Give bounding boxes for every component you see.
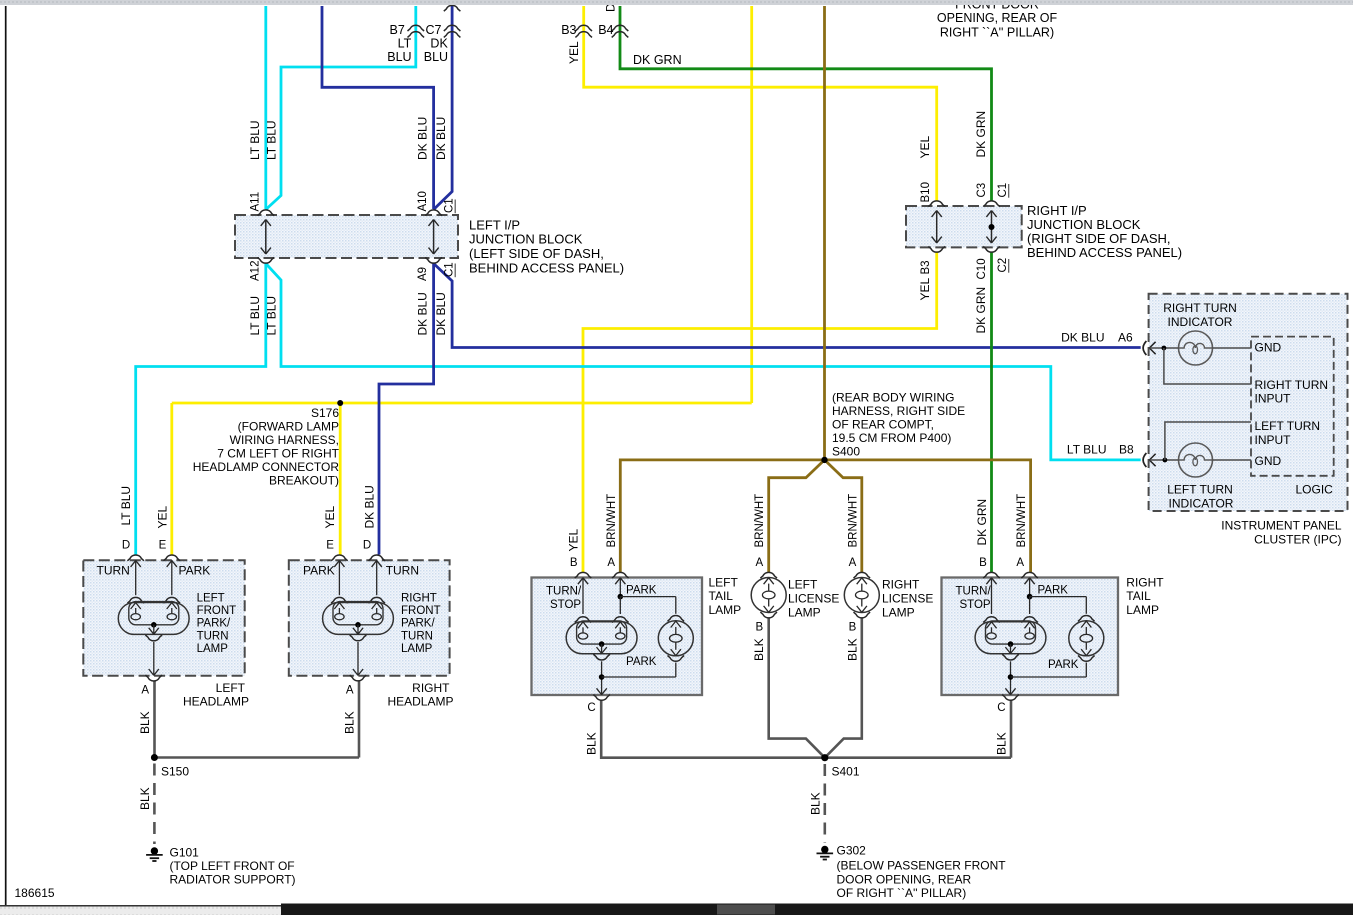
svg-text:B: B (979, 557, 987, 569)
svg-text:TURN: TURN (97, 564, 130, 578)
svg-text:B: B (849, 622, 857, 634)
svg-text:A10: A10 (417, 191, 429, 211)
svg-text:INPUT: INPUT (1255, 433, 1292, 447)
svg-text:BLK: BLK (808, 792, 822, 815)
svg-text:B3: B3 (920, 260, 932, 274)
svg-text:CLUSTER (IPC): CLUSTER (IPC) (1254, 532, 1341, 546)
svg-text:LT BLU: LT BLU (119, 486, 133, 526)
svg-text:B7: B7 (390, 23, 405, 37)
svg-text:BRN/WHT: BRN/WHT (1016, 494, 1028, 548)
svg-text:DOOR OPENING, REAR: DOOR OPENING, REAR (837, 872, 972, 886)
svg-text:YEL: YEL (323, 505, 337, 528)
svg-text:C1: C1 (997, 183, 1009, 198)
svg-text:YEL: YEL (155, 505, 169, 528)
svg-text:186615: 186615 (15, 886, 55, 900)
svg-text:D: D (363, 540, 371, 552)
svg-text:(TOP LEFT FRONT OF: (TOP LEFT FRONT OF (170, 859, 295, 873)
svg-text:PARK: PARK (303, 564, 335, 578)
svg-text:BLK: BLK (752, 638, 766, 661)
svg-text:B3: B3 (561, 23, 576, 37)
svg-text:E: E (326, 540, 334, 552)
svg-text:S176: S176 (311, 406, 339, 420)
svg-text:LAMP: LAMP (401, 643, 433, 655)
svg-text:C2: C2 (997, 258, 1009, 273)
svg-text:INSTRUMENT PANEL: INSTRUMENT PANEL (1221, 519, 1342, 533)
svg-text:OF RIGHT ``A'' PILLAR): OF RIGHT ``A'' PILLAR) (837, 886, 967, 900)
svg-text:BLK: BLK (845, 638, 859, 661)
svg-text:PARK/: PARK/ (401, 618, 435, 630)
svg-text:A11: A11 (249, 192, 261, 212)
svg-text:DK: DK (430, 37, 448, 51)
svg-text:HARNESS, RIGHT SIDE: HARNESS, RIGHT SIDE (832, 404, 965, 418)
svg-text:TURN: TURN (386, 564, 419, 578)
svg-text:BLK: BLK (995, 732, 1009, 755)
svg-text:A: A (1016, 557, 1024, 569)
svg-text:LAMP: LAMP (709, 603, 742, 617)
svg-text:S400: S400 (832, 445, 860, 459)
svg-text:LEFT TURN: LEFT TURN (1255, 419, 1321, 433)
svg-text:DK GRN: DK GRN (633, 53, 682, 67)
svg-text:BEHIND ACCESS PANEL): BEHIND ACCESS PANEL) (469, 260, 624, 275)
svg-text:RIGHT: RIGHT (1126, 576, 1164, 590)
svg-text:D: D (122, 540, 130, 552)
svg-text:C1: C1 (444, 198, 456, 213)
svg-text:B10: B10 (920, 182, 932, 202)
svg-text:RIGHT: RIGHT (882, 578, 920, 592)
svg-text:DK BLU: DK BLU (434, 117, 448, 160)
svg-text:PARK: PARK (179, 564, 211, 578)
svg-text:OF REAR COMPT,: OF REAR COMPT, (832, 418, 934, 432)
svg-text:GND: GND (1255, 341, 1282, 355)
svg-text:BRN/WHT: BRN/WHT (847, 494, 859, 548)
svg-text:LEFT TURN: LEFT TURN (1167, 483, 1233, 497)
svg-text:BRN/WHT: BRN/WHT (754, 494, 766, 548)
svg-text:DK GRN: DK GRN (974, 287, 988, 334)
svg-text:BLK: BLK (138, 787, 152, 810)
svg-text:LAMP: LAMP (882, 606, 915, 620)
svg-text:HEADLAMP: HEADLAMP (387, 695, 453, 709)
svg-text:WIRING HARNESS,: WIRING HARNESS, (230, 433, 339, 447)
svg-text:(RIGHT SIDE OF DASH,: (RIGHT SIDE OF DASH, (1027, 231, 1171, 246)
svg-text:LAMP: LAMP (197, 643, 229, 655)
svg-text:JUNCTION BLOCK: JUNCTION BLOCK (1027, 217, 1141, 232)
svg-text:C3: C3 (976, 183, 988, 198)
svg-text:DK BLU: DK BLU (434, 292, 448, 335)
svg-text:(FORWARD LAMP: (FORWARD LAMP (238, 420, 339, 434)
svg-text:RIGHT TURN: RIGHT TURN (1255, 378, 1329, 392)
svg-text:A: A (141, 685, 149, 697)
svg-text:LICENSE: LICENSE (882, 592, 933, 606)
svg-text:PARK: PARK (1038, 585, 1069, 597)
svg-text:A9: A9 (417, 267, 429, 281)
svg-text:INDICATOR: INDICATOR (1169, 496, 1234, 510)
svg-text:DK GRN: DK GRN (975, 499, 989, 546)
svg-text:PARK: PARK (1048, 659, 1079, 671)
svg-text:LEFT: LEFT (216, 681, 246, 695)
svg-text:B: B (756, 622, 764, 634)
svg-text:YEL: YEL (918, 277, 932, 300)
svg-text:YEL: YEL (918, 135, 932, 158)
svg-text:PARK: PARK (626, 656, 657, 668)
svg-text:HEADLAMP CONNECTOR: HEADLAMP CONNECTOR (193, 460, 340, 474)
svg-text:LEFT I/P: LEFT I/P (469, 217, 520, 232)
svg-text:TAIL: TAIL (709, 589, 734, 603)
svg-text:LEFT: LEFT (197, 593, 225, 605)
svg-text:BLK: BLK (138, 711, 152, 734)
svg-text:19.5 CM FROM P400): 19.5 CM FROM P400) (832, 431, 951, 445)
svg-text:TURN/: TURN/ (546, 586, 582, 598)
svg-text:A: A (346, 685, 354, 697)
svg-text:BLU: BLU (387, 50, 411, 64)
svg-text:DK GRN: DK GRN (974, 111, 988, 158)
svg-text:LEFT: LEFT (709, 576, 739, 590)
svg-text:LT BLU: LT BLU (1067, 442, 1107, 456)
svg-text:B8: B8 (1119, 442, 1134, 456)
svg-text:C: C (587, 702, 595, 714)
svg-text:DK BLU: DK BLU (416, 292, 430, 335)
svg-text:G302: G302 (837, 844, 867, 858)
svg-text:A12: A12 (249, 261, 261, 281)
svg-text:(BELOW PASSENGER FRONT: (BELOW PASSENGER FRONT (837, 859, 1007, 873)
svg-text:LT BLU: LT BLU (265, 296, 279, 336)
svg-text:JUNCTION BLOCK: JUNCTION BLOCK (469, 232, 583, 247)
svg-text:B: B (570, 557, 578, 569)
svg-text:C1: C1 (444, 262, 456, 277)
svg-text:LOGIC: LOGIC (1296, 483, 1334, 497)
svg-text:BLK: BLK (585, 732, 599, 755)
svg-text:HEADLAMP: HEADLAMP (183, 695, 249, 709)
svg-text:A6: A6 (1118, 331, 1133, 345)
svg-text:G101: G101 (170, 846, 200, 860)
svg-text:LAMP: LAMP (1126, 603, 1159, 617)
svg-text:A: A (756, 557, 764, 569)
svg-text:RIGHT: RIGHT (401, 593, 437, 605)
svg-text:S401: S401 (832, 765, 860, 779)
svg-text:PARK: PARK (626, 585, 657, 597)
svg-text:B4: B4 (598, 23, 613, 37)
svg-text:RADIATOR SUPPORT): RADIATOR SUPPORT) (170, 872, 296, 886)
svg-text:(LEFT SIDE OF DASH,: (LEFT SIDE OF DASH, (469, 246, 604, 261)
svg-text:A: A (849, 557, 857, 569)
svg-text:YEL: YEL (567, 528, 581, 551)
svg-text:DK BLU: DK BLU (363, 485, 377, 528)
svg-text:BREAKOUT): BREAKOUT) (269, 474, 339, 488)
svg-text:INDICATOR: INDICATOR (1168, 315, 1233, 329)
svg-text:LAMP: LAMP (788, 606, 821, 620)
svg-text:LT BLU: LT BLU (265, 120, 279, 160)
svg-text:BEHIND ACCESS PANEL): BEHIND ACCESS PANEL) (1027, 245, 1182, 260)
svg-text:STOP: STOP (960, 599, 991, 611)
svg-text:BRN/WHT: BRN/WHT (606, 494, 618, 548)
svg-text:LT BLU: LT BLU (248, 120, 262, 160)
svg-text:PARK/: PARK/ (197, 618, 231, 630)
svg-text:(REAR BODY WIRING: (REAR BODY WIRING (832, 391, 954, 405)
svg-text:INPUT: INPUT (1255, 392, 1292, 406)
svg-text:FRONT: FRONT (197, 605, 237, 617)
svg-text:DK BLU: DK BLU (1061, 331, 1104, 345)
svg-text:E: E (159, 540, 167, 552)
svg-text:LEFT: LEFT (788, 578, 818, 592)
svg-text:7 CM LEFT OF RIGHT: 7 CM LEFT OF RIGHT (217, 447, 339, 461)
svg-text:TURN: TURN (197, 630, 229, 642)
svg-text:S150: S150 (161, 765, 189, 779)
svg-text:GND: GND (1255, 454, 1282, 468)
svg-text:C7: C7 (426, 23, 442, 37)
svg-text:LICENSE: LICENSE (788, 592, 839, 606)
svg-text:TURN/: TURN/ (956, 586, 992, 598)
svg-text:YEL: YEL (567, 41, 581, 64)
svg-text:A: A (607, 557, 615, 569)
svg-text:RIGHT TURN: RIGHT TURN (1163, 301, 1237, 315)
svg-text:DK BLU: DK BLU (416, 117, 430, 160)
svg-text:C: C (997, 702, 1005, 714)
svg-text:FRONT: FRONT (401, 605, 441, 617)
svg-text:TAIL: TAIL (1126, 589, 1151, 603)
svg-text:BLU: BLU (424, 50, 448, 64)
svg-text:RIGHT: RIGHT (412, 681, 450, 695)
svg-text:OPENING, REAR OF: OPENING, REAR OF (937, 11, 1058, 25)
svg-text:RIGHT I/P: RIGHT I/P (1027, 203, 1087, 218)
svg-text:LT: LT (398, 37, 412, 51)
svg-text:TURN: TURN (401, 630, 433, 642)
svg-text:RIGHT ``A'' PILLAR): RIGHT ``A'' PILLAR) (940, 26, 1054, 40)
svg-text:BLK: BLK (343, 711, 357, 734)
svg-text:LT BLU: LT BLU (248, 296, 262, 336)
svg-text:STOP: STOP (550, 599, 581, 611)
svg-text:C10: C10 (976, 258, 988, 279)
